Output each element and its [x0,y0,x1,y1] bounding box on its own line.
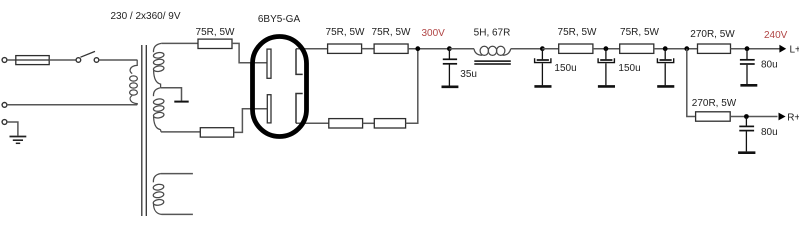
resistor R3 [328,44,362,53]
fuse F1 [16,56,49,65]
wire PE to earth [7,122,18,136]
arrow output L+ [779,45,786,53]
center tap ground [174,101,188,103]
junction node G [745,46,750,51]
svg-text:35u: 35u [460,69,477,80]
resistor R2 [200,128,233,137]
earth ground input [10,137,27,144]
resistor R5 [329,119,363,128]
wire secondary top to R1 [161,42,198,44]
tube anode plate top [267,49,271,78]
wire choke to node C [511,48,543,50]
svg-text:75R, 5W: 75R, 5W [326,27,365,38]
junction node E [663,46,668,51]
wire node C to R7 [542,48,558,50]
choke L1 coil [474,46,511,55]
capacitor C3 150u [598,49,615,87]
transformer T1 core [142,45,147,216]
svg-text:75R, 5W: 75R, 5W [558,27,597,38]
wire terminal N to primary bottom [7,104,137,106]
choke L1 core bars [474,61,511,64]
junction node D [604,46,609,51]
svg-text:230 / 2x360/ 9V: 230 / 2x360/ 9V [110,11,180,22]
wire switch to primary [99,59,137,61]
wire fuse to switch [49,59,76,61]
wire R6 up to node A [406,49,418,124]
svg-text:80u: 80u [761,60,778,71]
capacitor C5 80u [740,49,757,86]
heater lead bottom [162,213,193,215]
wire R1 to tube anode top [232,43,267,62]
tube anode plate bottom [267,95,271,123]
junction node F [684,46,689,51]
resistor R10 [696,112,731,121]
svg-text:75R, 5W: 75R, 5W [372,27,411,38]
wire R8 to node E [654,48,698,50]
transformer T1 heater winding [153,174,164,215]
wire R4 to node [408,48,449,50]
capacitor C6 80u [738,117,755,153]
svg-text:5H, 67R: 5H, 67R [474,28,511,39]
wire R9 to node G [731,48,780,50]
wire secondary bottom to R2 [161,131,200,133]
svg-text:R+: R+ [787,113,799,124]
svg-text:150u: 150u [618,63,640,74]
svg-text:270R, 5W: 270R, 5W [690,29,735,40]
wire R5 to R6 [363,122,375,124]
resistor R7 [559,44,593,53]
capacitor C1 35u [442,49,459,87]
svg-text:300V: 300V [422,28,446,39]
wire R3 to R4 [362,48,375,50]
tube U1 6BY5-GA envelope [253,37,307,137]
resistor R8 [620,44,654,53]
capacitor C2 150u [534,49,551,87]
junction node C [540,46,545,51]
terminal L input [2,58,7,63]
svg-text:L+: L+ [790,45,799,56]
wire R7 to node D [593,48,620,50]
svg-text:270R, 5W: 270R, 5W [692,98,737,109]
resistor R1 [198,39,232,48]
junction node B [447,46,452,51]
junction node A [415,46,420,51]
svg-text:80u: 80u [761,127,778,138]
capacitor C4 [657,49,674,87]
transformer T1 secondary winding top [153,43,164,87]
terminal N input [2,103,7,108]
svg-text:150u: 150u [554,63,576,74]
svg-text:75R, 5W: 75R, 5W [196,27,235,38]
wire node B to choke [449,48,474,50]
terminal PE input [2,120,7,125]
tube cathode top [296,49,303,75]
resistor R9 [698,44,731,53]
junction node H [744,114,749,119]
wire R2 to tube anode bottom [234,109,268,133]
center tap wire [161,88,182,101]
resistor R4 [374,44,408,53]
wire cathode top to R3 [296,48,328,50]
svg-text:75R, 5W: 75R, 5W [620,27,659,38]
svg-text:6BY5-GA: 6BY5-GA [258,14,301,25]
switch S1 [76,51,99,62]
tube cathode bottom [296,94,303,124]
arrow output R+ [779,113,786,121]
svg-text:240V: 240V [764,30,788,41]
resistor R6 [374,119,405,128]
wire node F down to R10 [687,49,696,117]
wire cathode bottom to R5 [296,122,329,124]
heater lead top [161,173,193,175]
wire R10 to node H [730,116,777,118]
transformer T1 secondary winding bottom [153,88,164,132]
transformer T1 primary winding [130,60,138,105]
wire terminal to fuse [7,59,16,61]
